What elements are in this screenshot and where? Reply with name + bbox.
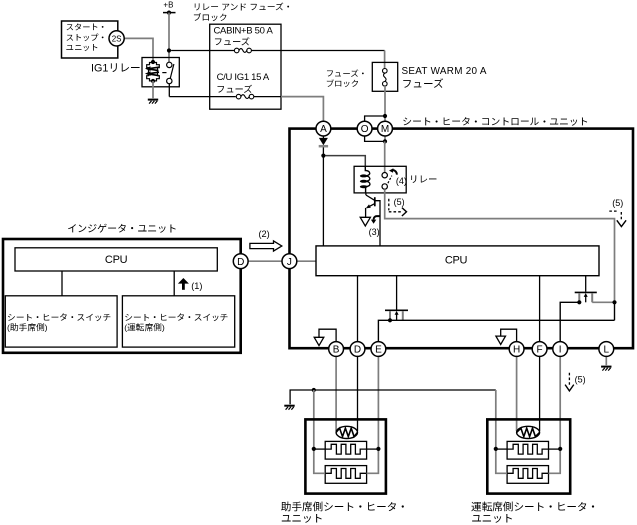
MOSFET Q3 (right) — [575, 292, 597, 302]
indicator unit box — [3, 239, 241, 353]
heater element 2 — [507, 466, 548, 484]
label (5) relay output — [389, 197, 407, 216]
fuse C/U IG1 15A — [216, 72, 270, 99]
ground bus wire — [290, 390, 496, 404]
arrow (1) — [178, 278, 203, 291]
seat heater switch driver — [122, 296, 234, 347]
svg-text:(4): (4) — [396, 176, 407, 186]
hook H to ground arrow — [496, 329, 517, 344]
connector E — [371, 342, 386, 357]
seat heater switch passenger — [5, 296, 117, 347]
svg-text:(助手席側): (助手席側) — [7, 320, 48, 333]
svg-text:(3): (3) — [369, 227, 380, 237]
connector D indicator — [233, 254, 248, 269]
svg-text:ユニット: ユニット — [281, 511, 323, 525]
svg-text:IG1リレー: IG1リレー — [91, 60, 141, 76]
heater element 1 — [507, 441, 548, 459]
relay IG1 — [142, 58, 179, 87]
svg-text:フューズ: フューズ — [402, 76, 444, 91]
svg-text:フューズ: フューズ — [214, 34, 250, 48]
label (5) near I — [565, 373, 586, 391]
svg-text:(1): (1) — [191, 281, 202, 291]
wire CPU to D — [357, 276, 359, 343]
svg-text:E: E — [375, 345, 382, 356]
connector M — [378, 121, 393, 136]
svg-text:A: A — [320, 124, 327, 135]
wire CPU to driver switch — [173, 271, 175, 296]
thermistor — [517, 426, 540, 438]
node M bottom — [383, 139, 387, 143]
power +B terminal — [163, 1, 176, 15]
svg-text:+B: +B — [163, 1, 173, 10]
node rail right — [558, 447, 562, 451]
heater element 2 — [325, 466, 366, 484]
connector B — [329, 342, 344, 357]
svg-text:(2): (2) — [259, 229, 270, 239]
seat heater control unit box — [290, 129, 634, 349]
svg-text:インジゲータ・ユニット: インジゲータ・ユニット — [67, 220, 177, 235]
relay (control unit) — [354, 166, 407, 193]
node feed junction — [612, 300, 616, 304]
passenger seat heater unit box — [305, 419, 386, 493]
element rails — [496, 449, 507, 473]
connector L — [599, 342, 614, 357]
node rail left — [312, 447, 316, 451]
svg-text:フューズ: フューズ — [216, 82, 252, 96]
wire CPU to F — [539, 276, 541, 343]
svg-text:H: H — [513, 345, 520, 356]
connector H — [509, 342, 524, 357]
svg-text:SEAT WARM 20 A: SEAT WARM 20 A — [402, 66, 487, 77]
wire CABIN+B down to fuse block (gray) — [384, 51, 386, 69]
wire B to thermistor (gray) — [335, 356, 337, 431]
wire heater feed (relay to MOSFETs) — [385, 189, 615, 302]
connector A — [316, 121, 331, 136]
fuse CABIN+B 50A — [214, 25, 274, 52]
svg-text:L: L — [604, 345, 610, 356]
wire junction to relay coil — [326, 156, 366, 167]
diode D1 — [319, 136, 328, 156]
node diode junction — [321, 154, 325, 158]
wire CABIN+B feed — [171, 50, 234, 52]
connector I — [553, 342, 568, 357]
CPU control unit — [316, 246, 599, 276]
wire C/U IG1 to connector A (gray) — [281, 97, 323, 122]
wire J to CPU (gray) — [296, 260, 316, 262]
fuse SEAT WARM 20A — [372, 62, 487, 91]
wire CPU to Q2 gate — [396, 276, 398, 310]
svg-text:(5): (5) — [575, 375, 586, 385]
node rail right — [376, 447, 380, 451]
wire M to relay switch (gray) — [384, 141, 386, 172]
node Q2 source — [388, 318, 392, 322]
svg-text:(運転席側): (運転席側) — [124, 320, 165, 333]
svg-text:(5): (5) — [394, 197, 405, 207]
svg-text:B: B — [333, 345, 340, 356]
wire Q1 base to CPU — [375, 201, 380, 246]
node Q3 source — [577, 300, 581, 304]
MOSFET Q2 (left) — [385, 310, 408, 320]
connector D control — [350, 342, 365, 357]
wire 2S to IG1 relay coil — [124, 38, 153, 62]
svg-text:D: D — [354, 345, 361, 356]
hook B to ground arrow — [314, 329, 336, 345]
node ground branch — [312, 388, 316, 392]
svg-text:ブロック: ブロック — [193, 11, 228, 24]
wire ground drop to right heater (gray) — [495, 390, 497, 449]
node CABIN+B branch — [167, 48, 171, 52]
heater element 1 — [325, 441, 366, 459]
svg-text:O: O — [361, 124, 369, 135]
ground IG1 relay — [148, 99, 158, 101]
wire junction to CPU — [322, 156, 324, 246]
ground (L) — [605, 356, 607, 365]
element rails — [314, 449, 325, 473]
relay and fuse block box — [210, 24, 281, 109]
svg-text:CPU: CPU — [445, 255, 468, 267]
wire Q3 drain to feed node — [592, 301, 614, 303]
wire O-M bridge bottom — [365, 136, 385, 142]
svg-text:ブロック: ブロック — [326, 78, 360, 90]
svg-text:2S: 2S — [112, 34, 122, 43]
svg-text:リレー: リレー — [409, 172, 437, 186]
svg-text:CPU: CPU — [105, 254, 128, 266]
connector F — [532, 342, 547, 357]
svg-text:J: J — [287, 257, 292, 268]
driver seat heater unit box — [487, 419, 570, 493]
svg-text:ユニット: ユニット — [471, 511, 513, 525]
label (5) feed top right — [609, 198, 626, 227]
wire Q3 to I — [560, 302, 579, 342]
wire D to J (gray) — [248, 260, 283, 262]
ground (bus) — [284, 405, 294, 407]
wire I to right rail (gray) — [559, 356, 561, 449]
wire ground drop to left heater — [313, 390, 315, 449]
svg-text:シート・ヒータ・コントロール・ユニット: シート・ヒータ・コントロール・ユニット — [402, 114, 588, 128]
wire fuse to M (gray) — [384, 86, 386, 141]
connector 2S — [109, 31, 124, 46]
block arrow (2) — [250, 229, 282, 251]
svg-text:(5): (5) — [612, 198, 623, 208]
wire CPU to passenger switch — [61, 271, 63, 296]
wire D to thermistor — [357, 356, 359, 431]
CPU indicator — [15, 248, 217, 271]
start-stop unit — [62, 21, 118, 58]
svg-text:I: I — [559, 345, 562, 356]
wire Q2 rail to E and feed — [378, 320, 614, 342]
wire E to left rail (gray) — [377, 356, 379, 449]
connector O — [357, 121, 372, 136]
wire CPU to Q3 gate — [585, 276, 587, 292]
wire O-M bridge top — [365, 116, 385, 122]
svg-text:M: M — [381, 124, 389, 135]
node rail left — [494, 447, 498, 451]
wire C/U IG1 feed — [168, 84, 170, 97]
transistor Q1 — [360, 193, 379, 237]
node M top — [383, 114, 387, 118]
svg-text:F: F — [537, 345, 543, 356]
wire F to thermistor — [539, 356, 541, 431]
wire IG1 coil to ground (gray) — [152, 81, 154, 98]
thermistor — [336, 426, 357, 438]
svg-text:D: D — [237, 257, 244, 268]
wire +B vertical (gray) — [168, 13, 170, 63]
wire H to thermistor (gray) — [516, 356, 518, 431]
svg-text:ユニット: ユニット — [66, 42, 99, 54]
connector J — [282, 254, 297, 269]
